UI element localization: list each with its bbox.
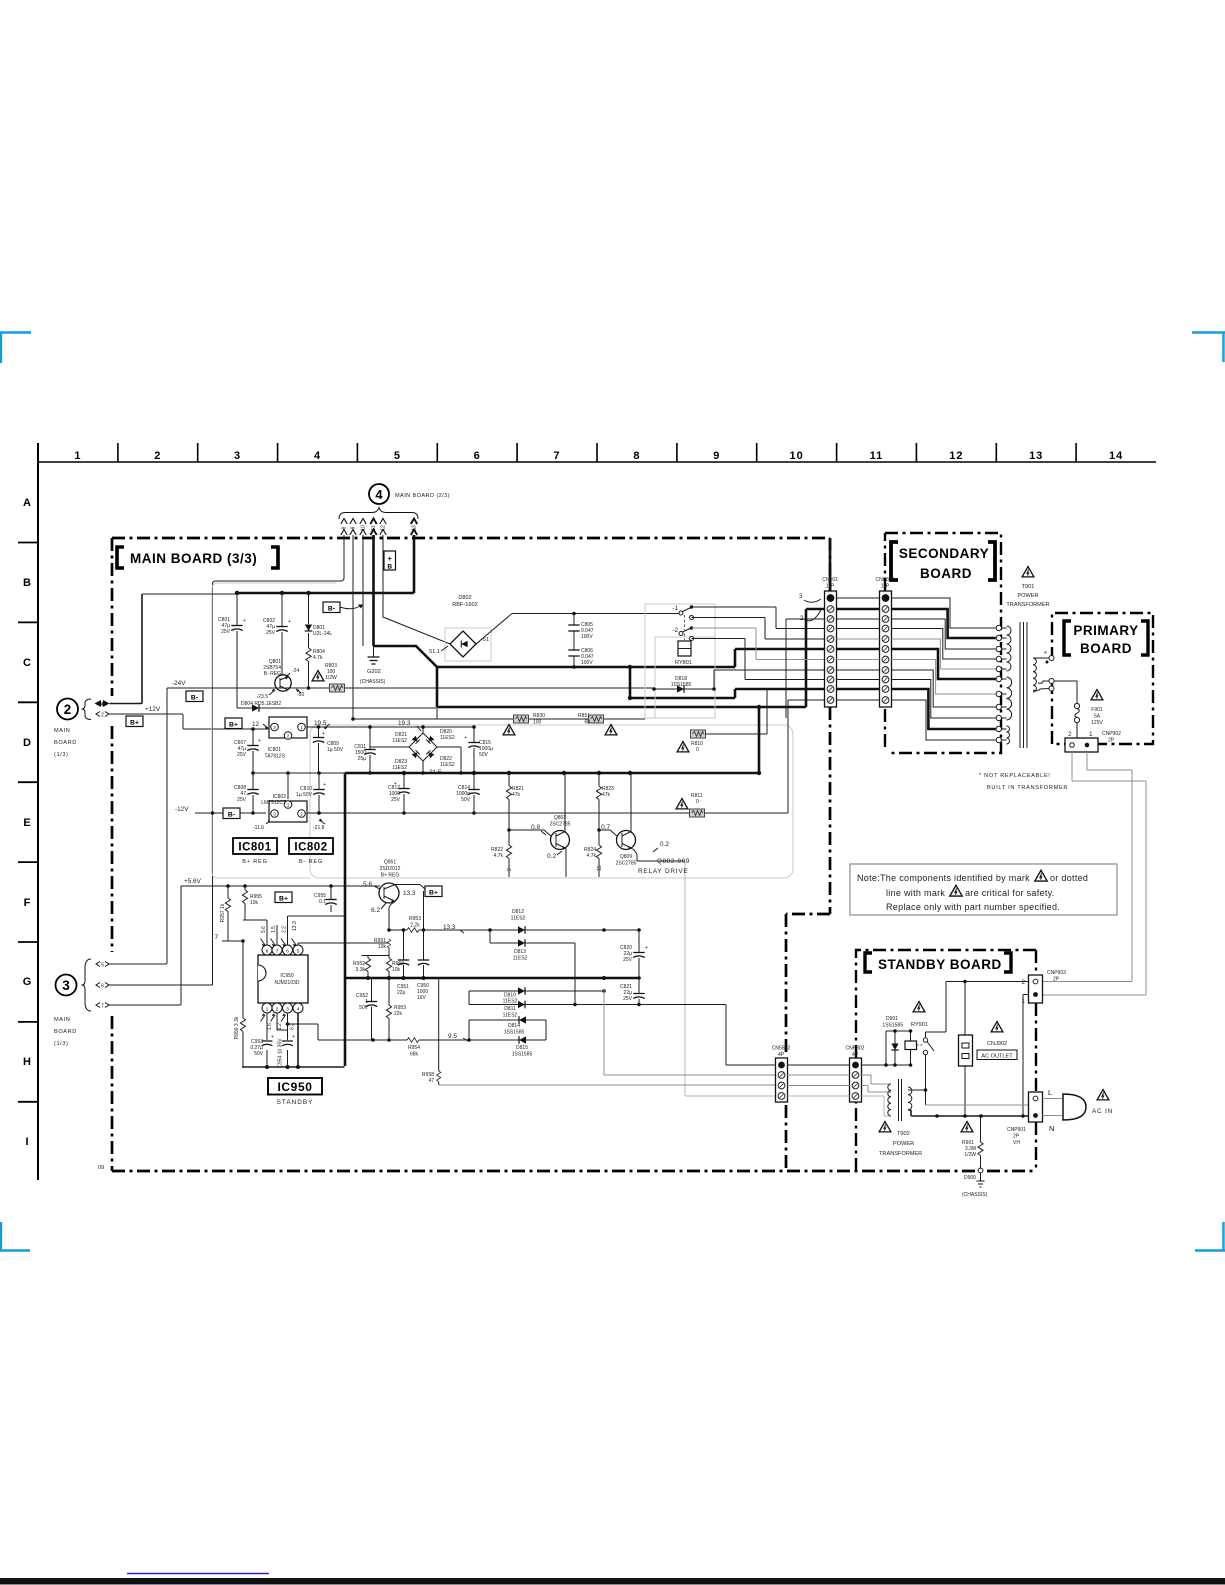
svg-text:(CHASSIS): (CHASSIS) <box>360 679 386 685</box>
standby ground rail <box>242 1066 345 1068</box>
svg-text:3.3k: 3.3k <box>356 967 366 973</box>
svg-text:2SC2785: 2SC2785 <box>616 861 637 867</box>
T901 secondary winding 1 <box>1002 627 1007 629</box>
thick rail to CN801 pin6 <box>437 649 824 667</box>
gray outline around D802 <box>445 628 491 661</box>
svg-text:25V: 25V <box>237 797 247 803</box>
svg-text:4.7k: 4.7k <box>494 853 504 859</box>
B+ vertical tag <box>384 551 396 570</box>
svg-text:-51: -51 <box>481 637 489 643</box>
svg-text:1: 1 <box>1089 731 1093 738</box>
IC950 pin4 wire <box>297 1013 299 1067</box>
IC950 pin pointer arrows <box>261 939 297 1022</box>
svg-text:1SS1585: 1SS1585 <box>512 1052 533 1058</box>
Q809 emitter wire <box>632 849 685 862</box>
chassis ground D900 <box>980 1173 982 1181</box>
svg-text:3: 3 <box>799 593 803 600</box>
svg-text:NJM2103D: NJM2103D <box>274 980 299 986</box>
svg-text:A: A <box>23 497 31 509</box>
svg-text:11: 11 <box>371 525 377 530</box>
svg-text:2: 2 <box>1068 731 1072 738</box>
svg-text:-24V: -24V <box>172 680 186 687</box>
resistor R803 100 1/2W (safety) <box>330 684 345 692</box>
svg-text:D802: D802 <box>458 595 471 601</box>
svg-text:Q951: Q951 <box>384 860 396 866</box>
svg-text:H: H <box>23 1056 31 1068</box>
capacitor C812 1000 25V <box>403 773 405 813</box>
svg-text:2P: 2P <box>1013 1134 1020 1140</box>
IC802 output line to R811 <box>307 700 824 813</box>
wires CNP801 to T901 terminals <box>892 598 996 628</box>
IC950 pin 8 <box>262 945 272 955</box>
secondary board dash-dot outline <box>885 533 1001 753</box>
svg-text:2SD2012: 2SD2012 <box>380 866 401 872</box>
+5.6V rail <box>181 885 374 887</box>
svg-text:7: 7 <box>214 934 218 941</box>
svg-text:4.7k: 4.7k <box>313 655 323 661</box>
svg-text:4: 4 <box>375 487 383 502</box>
ground G202 (CHASSIS) <box>373 646 375 657</box>
resistor R822 4.7k <box>508 830 510 877</box>
svg-text:11: 11 <box>870 450 884 462</box>
svg-text:CN801: CN801 <box>822 577 838 583</box>
svg-text:MAIN: MAIN <box>54 1017 70 1023</box>
svg-text:L: L <box>1048 1088 1052 1097</box>
warning mark R810 <box>677 742 689 752</box>
T901 primary winding <box>1033 658 1036 692</box>
svg-text:25V: 25V <box>221 629 231 635</box>
svg-text:47k: 47k <box>602 792 611 798</box>
B+ tag at +12V input <box>126 716 143 727</box>
capacitor C807 <box>252 729 254 773</box>
svg-text:IC801: IC801 <box>268 747 282 753</box>
svg-text:25V: 25V <box>266 630 276 636</box>
svg-text:8: 8 <box>266 948 269 953</box>
svg-text:R956 3.3k: R956 3.3k <box>234 1016 240 1039</box>
IC801 TA7812S regulator <box>269 717 307 738</box>
svg-text:0: 0 <box>696 747 699 753</box>
svg-text:47k: 47k <box>512 792 521 798</box>
svg-text:G: G <box>23 976 32 988</box>
svg-text:IC802: IC802 <box>294 842 327 854</box>
svg-text:U2L-24L: U2L-24L <box>313 631 332 637</box>
svg-text:+: + <box>288 619 291 625</box>
connector CNP802 4P <box>850 1058 862 1102</box>
wire from CNP802 pin2 to T902 <box>862 1075 891 1084</box>
svg-text:2: 2 <box>154 450 161 462</box>
wire from arrow 2 (+12V) <box>109 714 269 729</box>
resistor R901 3.3M 1/2W <box>980 1116 982 1168</box>
wire from pin 12 down and diagonal to bridge D802 <box>383 535 450 644</box>
relay contact RY901 <box>923 1038 927 1042</box>
svg-text:11P: 11P <box>826 584 835 590</box>
resistor R952 3.3k <box>367 956 369 959</box>
long wire to CN902 pin4 <box>685 861 776 1096</box>
svg-text:09: 09 <box>98 1165 104 1171</box>
IC950 pin3 wire with C954 <box>287 1013 289 1067</box>
svg-text:47: 47 <box>428 1078 434 1084</box>
Q809 base wire <box>599 830 617 836</box>
svg-text:1.6: 1.6 <box>267 1023 273 1030</box>
svg-text:2: 2 <box>64 702 72 717</box>
svg-text:22k: 22k <box>394 1011 403 1017</box>
svg-text:2P: 2P <box>1108 738 1115 744</box>
warning mark AC IN <box>1097 1090 1109 1100</box>
resistor R824 4.7k <box>598 830 600 877</box>
IC950 label box <box>268 1078 322 1095</box>
svg-text:+: + <box>388 554 393 563</box>
svg-text:RBF-1602: RBF-1602 <box>452 602 478 608</box>
svg-text:16V: 16V <box>417 995 427 1001</box>
svg-text:D812: D812 <box>512 909 524 915</box>
svg-text:LM7912CT: LM7912CT <box>261 800 286 806</box>
svg-text:1SS1585: 1SS1585 <box>671 682 692 688</box>
svg-text:2.2: 2.2 <box>282 926 288 933</box>
svg-text:F: F <box>24 897 31 909</box>
safety note box <box>850 864 1117 915</box>
capacitor C808 <box>252 773 254 813</box>
node row line to CN902 pin1 <box>726 1005 776 1066</box>
svg-text:D813: D813 <box>514 949 526 955</box>
wires CN5802 to CNP802 <box>788 1064 850 1066</box>
Q802 base wire <box>509 830 551 836</box>
capacitor C809 <box>318 727 320 773</box>
main board (3/3) dash-dot outline <box>112 538 1036 1171</box>
diode bridge D820-D823 11ES2 <box>409 733 437 761</box>
svg-text:2: 2 <box>101 712 104 718</box>
svg-text:T901: T901 <box>1022 584 1035 590</box>
svg-text:E: E <box>23 817 30 829</box>
svg-text:1: 1 <box>74 450 81 462</box>
svg-text:5: 5 <box>297 948 300 953</box>
relay coil RY801 <box>678 641 691 656</box>
L line <box>926 1104 1032 1106</box>
svg-text:2SC2785: 2SC2785 <box>550 822 571 828</box>
svg-text:5: 5 <box>101 962 104 968</box>
wires CN801 to CNP801 <box>837 597 880 599</box>
svg-text:Q802: Q802 <box>554 815 566 821</box>
svg-text:1: 1 <box>266 1006 269 1011</box>
svg-text:IC950: IC950 <box>277 1080 312 1094</box>
diode D814 1SS1585 row <box>469 1019 546 1021</box>
wire from arrow 4 thick <box>110 594 143 704</box>
svg-text:5: 5 <box>394 450 401 462</box>
T901 secondary winding 2 <box>1002 678 1007 680</box>
svg-text:AC OUTLET: AC OUTLET <box>981 1054 1013 1060</box>
svg-text:100: 100 <box>533 720 542 726</box>
svg-text:11ES2: 11ES2 <box>440 735 455 741</box>
svg-text:4.7k: 4.7k <box>587 853 597 859</box>
leader arrows Q801/IC801/IC802 values <box>263 673 330 824</box>
resistor R851 68 (safety) <box>589 715 604 723</box>
svg-text:CNP802: CNP802 <box>846 1046 865 1052</box>
connector arrow pin 10 <box>360 519 366 536</box>
svg-text:G202: G202 <box>367 669 381 675</box>
svg-text:D811: D811 <box>504 1006 516 1012</box>
IC801/IC802 mid rail <box>253 772 345 774</box>
svg-text:POWER: POWER <box>893 1141 914 1147</box>
svg-text:2: 2 <box>1021 979 1025 986</box>
transistor Q802 2SC2785 <box>551 831 570 850</box>
AC outlet branch vertical <box>964 982 966 1117</box>
svg-text:1µ 50V: 1µ 50V <box>327 747 344 753</box>
IC950 pin 2 <box>272 1003 282 1013</box>
B+ tag standby <box>275 892 292 903</box>
wire pin3 net <box>786 619 824 718</box>
gray safety outline relay inner <box>655 637 715 718</box>
svg-text:R953: R953 <box>409 916 421 922</box>
IC950 pin2 wire <box>277 1013 288 1030</box>
svg-text:VH: VH <box>1013 1140 1020 1146</box>
warning mark T901 <box>1022 567 1034 577</box>
resistor R955 10k <box>244 886 246 920</box>
svg-text:7: 7 <box>101 1003 104 1009</box>
wire pin8 <box>243 920 267 945</box>
capacitor C951 22u <box>403 930 405 978</box>
svg-text:CNJ902: CNJ902 <box>987 1041 1007 1047</box>
connector CNP903 2P <box>1029 975 1043 1003</box>
svg-text:D900: D900 <box>964 1175 976 1181</box>
svg-text:B: B <box>23 577 31 589</box>
svg-text:B- REG: B- REG <box>299 859 323 865</box>
svg-text:+: + <box>464 735 467 741</box>
IC950 pin 3 <box>283 1003 293 1013</box>
svg-text:MAIN BOARD (2/3): MAIN BOARD (2/3) <box>395 493 450 499</box>
svg-text:68: 68 <box>584 720 590 726</box>
svg-text:10k: 10k <box>250 900 259 906</box>
B- tag on -24V rail <box>186 691 203 702</box>
connector arrow pin 8 <box>341 519 347 536</box>
diode D815 1SS1585 row <box>519 1036 526 1044</box>
svg-text:R830: R830 <box>533 713 545 719</box>
svg-text:68k: 68k <box>410 1052 419 1058</box>
svg-text:D: D <box>23 737 31 749</box>
svg-text:+: + <box>645 945 648 951</box>
connector CN801 11P <box>825 591 837 707</box>
svg-text:IC801: IC801 <box>238 842 271 854</box>
svg-text:B: B <box>387 564 392 571</box>
svg-text:(1/3): (1/3) <box>54 752 69 758</box>
IC950 pin 6 <box>283 945 293 955</box>
svg-text:19.5: 19.5 <box>314 720 327 727</box>
IC802 LM7912CT regulator <box>269 801 307 822</box>
svg-text:5.6: 5.6 <box>363 881 372 888</box>
svg-text:(CHASSIS): (CHASSIS) <box>962 1192 988 1198</box>
svg-text:MAIN BOARD (3/3): MAIN BOARD (3/3) <box>130 551 257 566</box>
wire to CN902 pin2 <box>604 990 776 1075</box>
connector arrow 4 (bold) <box>95 700 110 707</box>
secondary board title bracket left <box>891 542 898 580</box>
svg-text:CN5802: CN5802 <box>772 1046 791 1052</box>
svg-text:4: 4 <box>314 450 321 462</box>
svg-text:4P: 4P <box>778 1052 785 1058</box>
grid column ticks <box>118 443 1076 462</box>
svg-text:7: 7 <box>276 948 279 953</box>
Q802 emitter down <box>565 849 567 878</box>
resistor R830 100 (safety) <box>353 718 645 720</box>
svg-text:POWER: POWER <box>1017 593 1038 599</box>
standby bold rail <box>345 977 639 980</box>
warning mark R830 <box>503 725 515 735</box>
svg-text:T902: T902 <box>897 1131 910 1137</box>
transistor Q809 2SC2785 <box>617 831 636 850</box>
connector ref circle 4 <box>369 484 389 504</box>
svg-text:25V: 25V <box>391 797 401 803</box>
svg-text:-12V: -12V <box>175 806 189 813</box>
gray safety outline relay outer <box>645 604 715 718</box>
warning mark F901 <box>1091 690 1103 700</box>
-24V rail <box>167 687 654 689</box>
diode D901 1SS1585 <box>886 1030 912 1032</box>
svg-text:Note:The components identified: Note:The components identified by mark <box>857 873 1030 883</box>
svg-text:10k: 10k <box>392 967 401 973</box>
capacitor C805 0.047 100V <box>573 614 575 650</box>
diode D813 11ES2 row <box>490 930 575 943</box>
svg-text:line with mark: line with mark <box>886 888 945 898</box>
svg-text:B-: B- <box>228 812 235 819</box>
svg-text:D814: D814 <box>508 1023 520 1029</box>
svg-text:* NOT REPLACEABLE!: * NOT REPLACEABLE! <box>979 773 1051 779</box>
svg-text:100V: 100V <box>581 634 593 640</box>
Q809 collector to rail <box>630 773 632 832</box>
standby board title bracket right <box>1004 953 1011 972</box>
wire from arrow 5 to -24V rail <box>109 688 167 964</box>
T902 secondary winding <box>908 1087 912 1110</box>
svg-text:+: + <box>243 618 246 624</box>
bold vertical to relay thick line <box>758 707 761 773</box>
capacitor C811 1500 25V <box>369 727 371 773</box>
wire pin7 <box>276 925 278 945</box>
grid left border line <box>37 443 39 1180</box>
svg-text:25V: 25V <box>623 957 633 963</box>
svg-text:STANDBY BOARD: STANDBY BOARD <box>878 957 1002 972</box>
wire to CN902 pin3 <box>439 1084 776 1086</box>
svg-text:6: 6 <box>474 450 481 462</box>
svg-text:7: 7 <box>554 450 561 462</box>
svg-text:51.1: 51.1 <box>429 649 440 655</box>
T901 core <box>1020 622 1027 748</box>
svg-text:13.3: 13.3 <box>292 921 298 931</box>
connector arrow pin 12 <box>380 519 386 536</box>
IC950 pin1 wire with C953 <box>266 1013 268 1067</box>
svg-text:13: 13 <box>1029 450 1043 462</box>
crop mark bottom-right <box>1195 1222 1225 1251</box>
IC801 output rail <box>307 726 474 728</box>
resistor R954 68k <box>318 1039 546 1041</box>
svg-text:9: 9 <box>351 526 357 529</box>
relay coil RY901 <box>905 1041 917 1050</box>
svg-text:11ES2: 11ES2 <box>440 762 455 768</box>
svg-text:2.2k: 2.2k <box>410 923 420 929</box>
resistor R951 10k <box>387 939 391 948</box>
svg-text:(1/3): (1/3) <box>54 1041 69 1047</box>
svg-text:0.1: 0.1 <box>319 899 326 905</box>
svg-text:6: 6 <box>286 948 289 953</box>
svg-text:BUILT IN TRANSFORMER: BUILT IN TRANSFORMER <box>987 785 1068 791</box>
warning mark CNJ902 <box>991 1022 1003 1032</box>
capacitor C952 1 50V <box>371 978 373 1040</box>
svg-text:0.2: 0.2 <box>547 853 556 860</box>
diode D812 11ES2 row <box>419 929 639 931</box>
wire top border to CN801 pin1 <box>829 538 832 591</box>
wire pin6 <box>288 916 346 945</box>
svg-text:50V: 50V <box>461 797 471 803</box>
svg-text:1µ 50V: 1µ 50V <box>296 792 313 798</box>
T901 secondary terminals <box>996 625 1001 630</box>
connector arrow 5 <box>96 962 109 967</box>
svg-text:R851: R851 <box>578 713 590 719</box>
svg-text:D804 RD5.1ESB2: D804 RD5.1ESB2 <box>241 701 282 707</box>
svg-text:3: 3 <box>234 450 241 462</box>
wire from pin 9 down to D804 line <box>352 535 354 719</box>
svg-text:6.2: 6.2 <box>371 907 380 914</box>
svg-text:+5.6V: +5.6V <box>184 878 202 885</box>
svg-text:B- REG: B- REG <box>264 671 281 677</box>
connector CNP801 11P <box>880 591 892 707</box>
bridge rectifier D802 RBF-1602 <box>450 631 476 657</box>
svg-text:Q809: Q809 <box>620 854 632 860</box>
svg-text:4: 4 <box>297 1006 300 1011</box>
thick rail G202 node <box>374 646 438 667</box>
Q802 collector to rail <box>564 773 566 832</box>
svg-text:25V: 25V <box>623 996 633 1002</box>
svg-text:25µ: 25µ <box>358 756 367 762</box>
wire from CNP802 pin4 <box>862 1096 891 1116</box>
svg-text:9.5: 9.5 <box>448 1033 457 1040</box>
svg-text:11ES2: 11ES2 <box>392 765 407 771</box>
IC802 label box <box>289 838 333 854</box>
svg-text:8: 8 <box>342 526 348 529</box>
thick rail row D to pin2 <box>437 609 824 707</box>
diode D811 11ES2 row <box>469 1004 726 1006</box>
svg-text:B-: B- <box>328 606 335 613</box>
svg-text:10: 10 <box>361 525 367 531</box>
svg-text:B+: B+ <box>229 722 238 729</box>
svg-text:-1: -1 <box>672 605 678 612</box>
bridge connections <box>370 727 461 773</box>
relay linkage dashed <box>684 615 686 640</box>
svg-text:-24: -24 <box>292 668 299 674</box>
wire from pin 13 thick down to top rail <box>413 535 416 593</box>
Q951 collector to B+ tag <box>395 885 424 931</box>
svg-text:6: 6 <box>101 983 104 989</box>
svg-text:+: + <box>292 1034 295 1040</box>
svg-text:+: + <box>323 782 326 788</box>
svg-text:-2: -2 <box>672 627 678 634</box>
capacitor C814 1000p 50V <box>473 773 475 813</box>
resistor R960 10k <box>388 956 390 959</box>
grid header line <box>38 461 1156 463</box>
AC outlet CNJ902 <box>959 1035 973 1066</box>
CNP903 pin1 wire to N line <box>1023 995 1029 1117</box>
svg-text:5A: 5A <box>1094 714 1101 720</box>
wire from pin 10 down <box>362 535 364 646</box>
primary board dash-dot outline <box>1052 613 1153 744</box>
svg-text:11P: 11P <box>881 584 890 590</box>
svg-text:or dotted: or dotted <box>1050 873 1088 883</box>
svg-text:BOARD: BOARD <box>1080 641 1132 656</box>
resistor R811 0 (safety) <box>690 809 705 817</box>
warning mark R811 <box>676 799 688 809</box>
brace for circle 3 <box>82 959 92 1011</box>
svg-text:50V: 50V <box>479 752 489 758</box>
svg-text:+: + <box>394 781 397 787</box>
gray enclosure left extension <box>212 583 336 878</box>
capacitor C806 0.047 100V <box>573 649 575 667</box>
svg-text:2: 2 <box>276 1006 279 1011</box>
secondary board title bracket right <box>988 542 995 580</box>
brace for circle 2 <box>82 699 92 720</box>
